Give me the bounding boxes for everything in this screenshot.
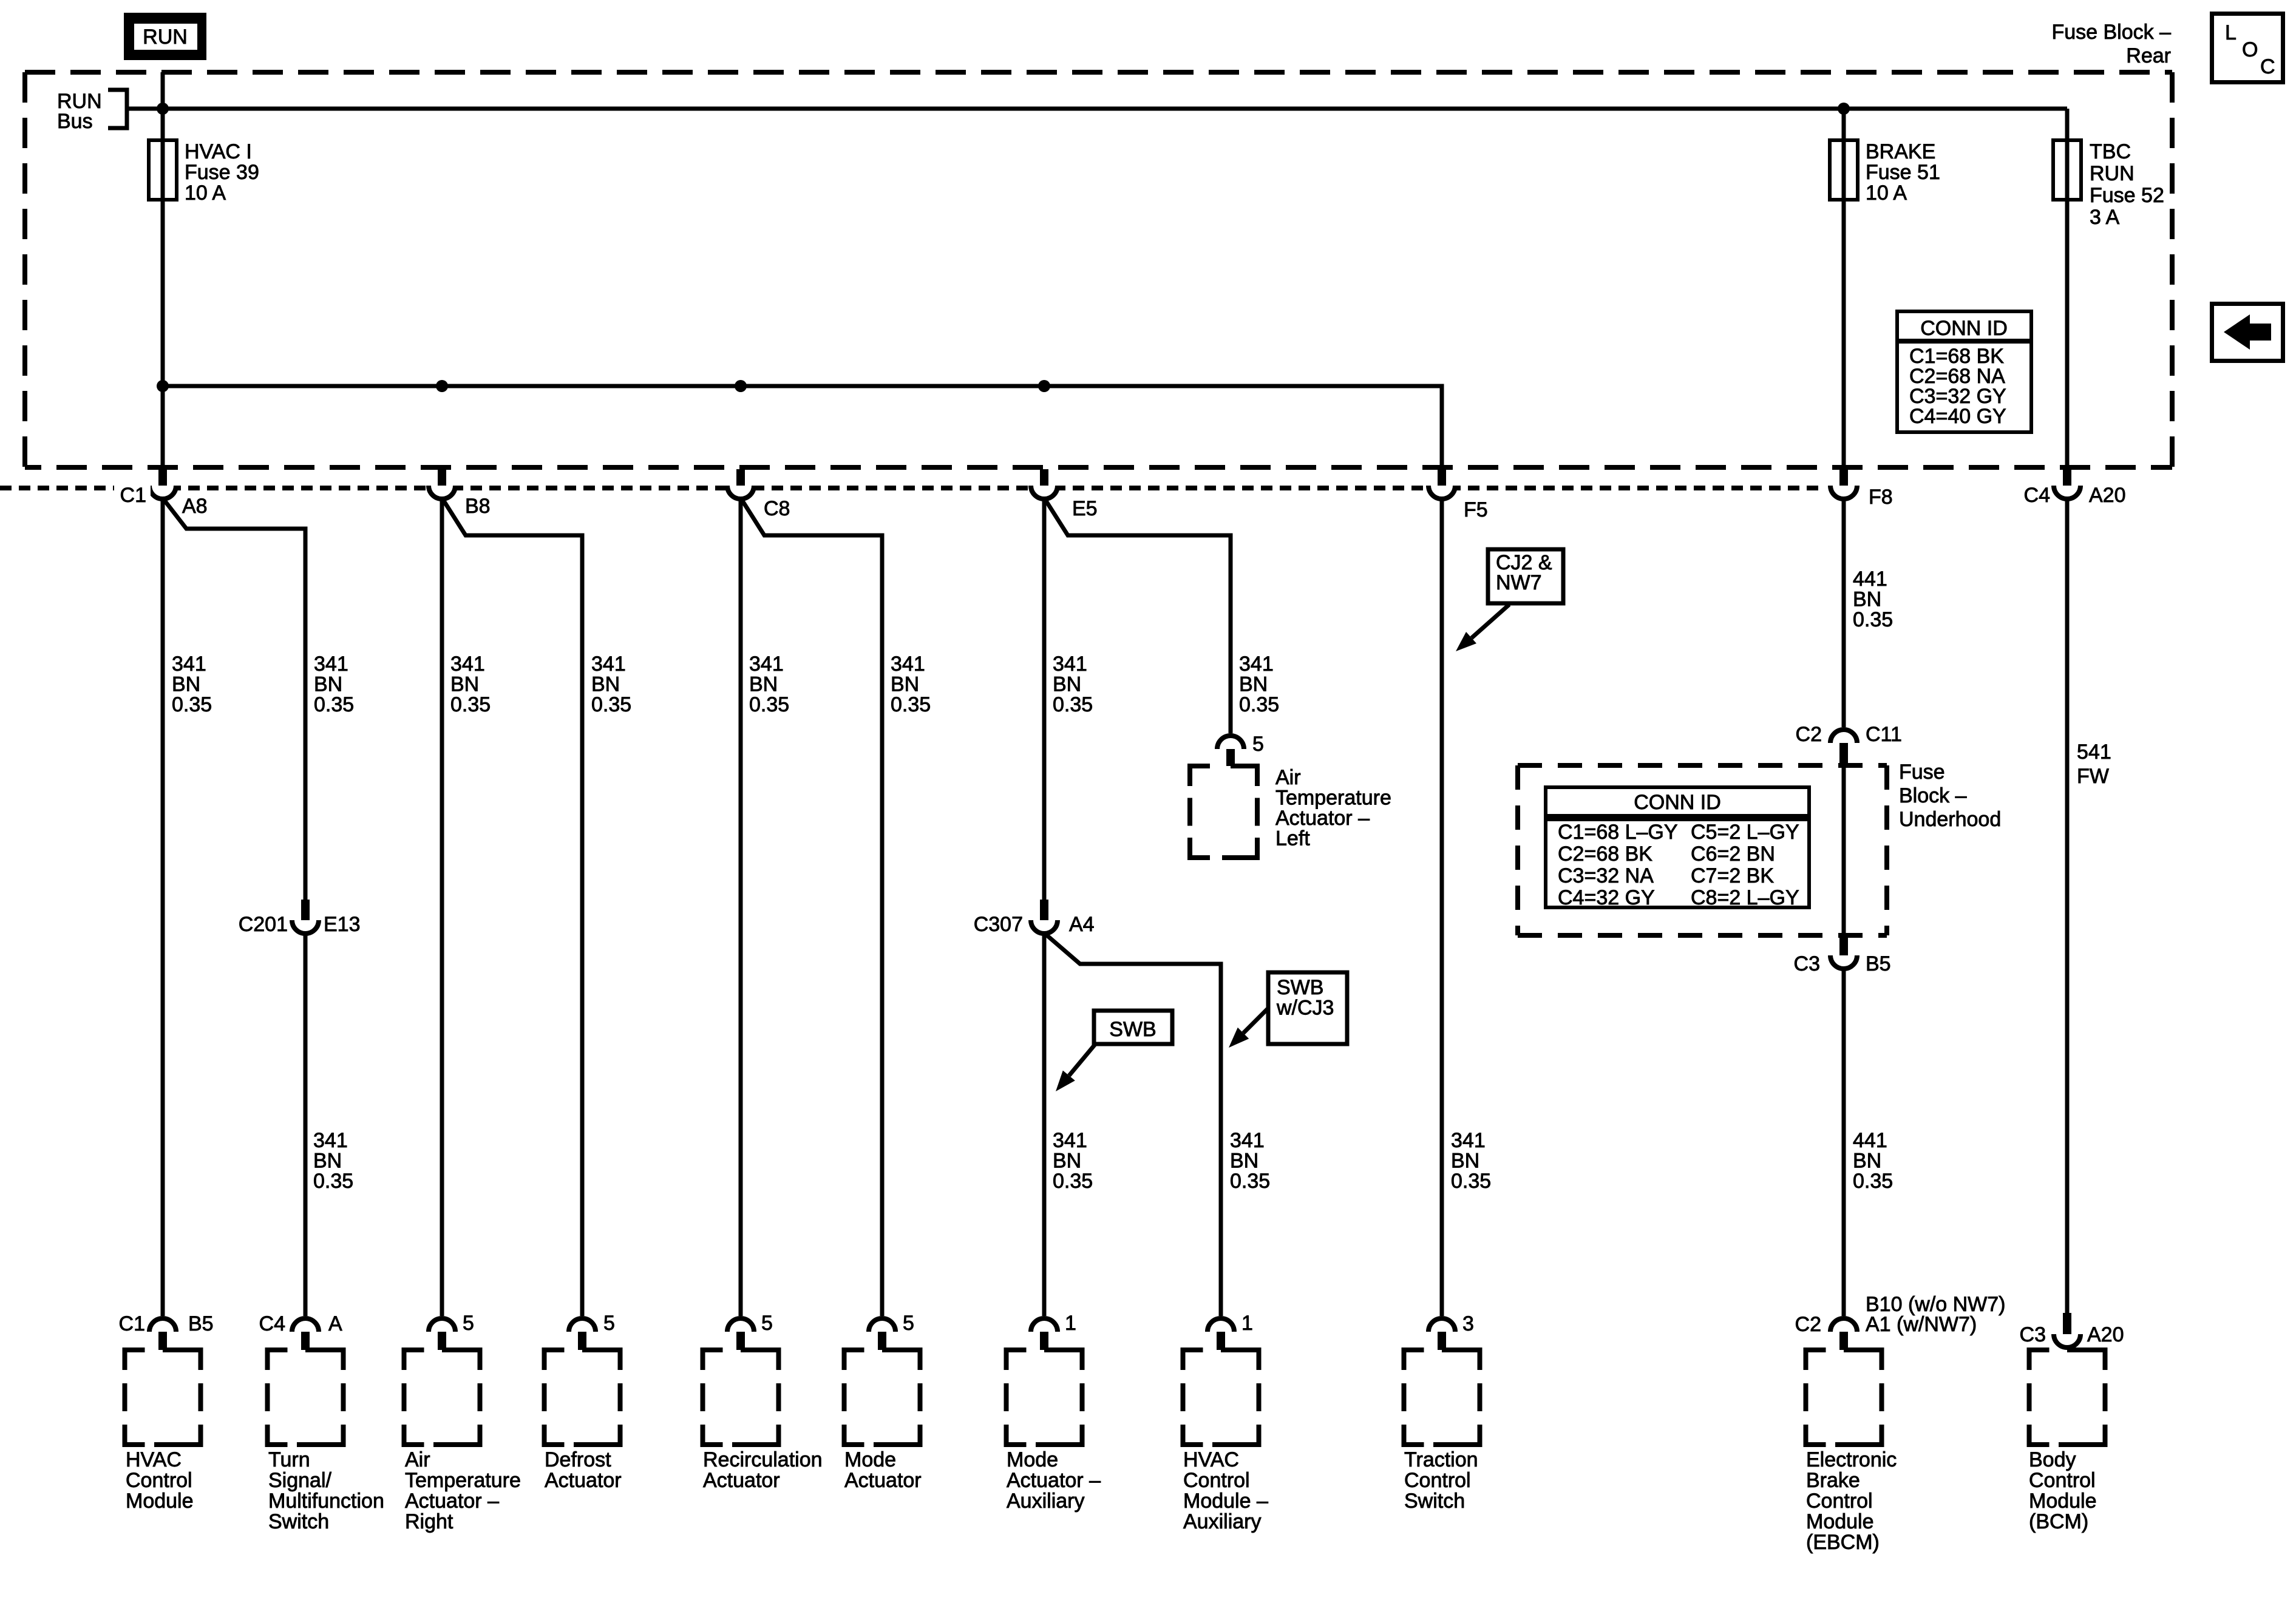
component box traction control switch [1404,1350,1480,1445]
label Electronic Brake Control Module EBCM [1806,1448,1897,1554]
label HVAC Control Module [126,1448,194,1513]
svg-text:Actuator –: Actuator – [1007,1469,1101,1492]
svg-text:341: 341 [314,653,348,676]
svg-text:HVAC: HVAC [126,1448,182,1471]
svg-text:Control: Control [2029,1469,2096,1492]
svg-text:Auxiliary: Auxiliary [1007,1490,1084,1513]
svg-text:BN: BN [1451,1150,1479,1173]
svg-text:341: 341 [1230,1129,1265,1152]
connector pin 5 mode actuator [869,1318,895,1350]
svg-text:0.35: 0.35 [172,693,212,716]
connector pin F5 [1428,469,1455,499]
svg-text:RUN: RUN [143,25,188,49]
svg-text:Module –: Module – [1183,1490,1268,1513]
svg-text:441: 441 [1853,568,1887,591]
label Fuse Block - Underhood [1899,761,2001,831]
svg-text:HVAC I: HVAC I [185,140,252,163]
connector pin B8 [429,469,455,499]
svg-text:5: 5 [463,1312,474,1335]
label Defrost Actuator [545,1448,622,1492]
svg-text:Fuse Block –: Fuse Block – [2051,21,2171,44]
svg-text:341: 341 [891,653,925,676]
svg-text:BN: BN [1239,673,1268,696]
svg-text:E5: E5 [1072,497,1098,520]
connector C4 pin A turn signal switch [292,1318,319,1350]
component box HVAC control module [125,1350,201,1445]
svg-text:B8: B8 [465,495,491,518]
svg-text:5: 5 [761,1312,773,1335]
svg-text:Fuse: Fuse [1899,761,1945,784]
label Turn Signal Multifunction Switch [268,1448,384,1533]
wire 341 BN A8 branch to C201 [163,499,305,904]
wire RUN bus [127,107,2067,111]
wire RUN feed through HVAC I fuse to connector C1 A8 [161,72,165,469]
label Air Temperature Actuator - Right [405,1448,521,1533]
component box BCM [2029,1350,2105,1445]
svg-text:BN: BN [1853,588,1881,611]
svg-text:RUN: RUN [2090,162,2135,185]
svg-text:10 A: 10 A [185,181,226,205]
connector C201 pin E13 [292,900,319,934]
wire 341 BN E5 branch to air temperature actuator left [1045,499,1231,733]
svg-text:SWB: SWB [1109,1018,1156,1041]
svg-text:Defrost: Defrost [545,1448,611,1471]
connector pin 5 air temperature actuator left [1217,736,1244,766]
connector C2 pin C11 [1830,730,1857,765]
svg-text:BRAKE: BRAKE [1866,140,1935,163]
svg-text:341: 341 [591,653,626,676]
label 341 BN 0.35 [591,653,631,716]
component box mode actuator [844,1350,920,1445]
connector row dotted boundary [0,486,1825,490]
wire 341 BN C307 to mode actuator auxiliary [1042,931,1047,1316]
svg-text:CONN ID: CONN ID [1634,791,1721,814]
svg-text:FW: FW [2077,765,2109,788]
svg-text:C307: C307 [974,913,1023,936]
svg-text:C3: C3 [2020,1323,2046,1346]
label C2 B10 A1 [1795,1293,2006,1336]
svg-text:NW7: NW7 [1496,571,1542,594]
svg-text:0.35: 0.35 [591,693,631,716]
wire 341 BN C201 to turn signal multifunction switch [304,931,308,1316]
fuse 51 BRAKE 10A [1830,140,1940,205]
junction distribution / B8 [436,380,448,392]
svg-text:Bus: Bus [57,110,93,133]
wire 541 FW C4 A20 to BCM [2065,497,2070,1313]
svg-text:BN: BN [1053,673,1081,696]
svg-text:341: 341 [313,1129,348,1152]
svg-text:Control: Control [1806,1490,1873,1513]
component box turn signal multifunction switch [268,1350,344,1445]
svg-text:341: 341 [172,653,206,676]
svg-text:Body: Body [2029,1448,2076,1471]
connector pin F8 [1830,469,1857,499]
svg-text:BN: BN [749,673,778,696]
callout SWB w/CJ3 [1229,972,1347,1048]
label Recirculation Actuator [703,1448,823,1492]
component box mode actuator auxiliary [1007,1350,1082,1445]
LOC legend box [2212,14,2283,83]
svg-text:C1: C1 [119,1312,145,1335]
svg-text:O: O [2242,38,2258,61]
svg-text:Control: Control [1404,1469,1471,1492]
svg-text:C3=32 NA: C3=32 NA [1558,864,1654,887]
svg-text:C8: C8 [764,497,790,520]
svg-text:Right: Right [405,1510,453,1533]
wire 341 BN E5 to C307 [1042,497,1047,904]
label C3 A20 [2020,1323,2124,1346]
label 341 BN 0.35 [450,653,491,716]
svg-text:BN: BN [891,673,919,696]
svg-text:C6=2 BN: C6=2 BN [1691,842,1775,866]
svg-text:341: 341 [1451,1129,1486,1152]
svg-text:Mode: Mode [844,1448,896,1471]
svg-text:Temperature: Temperature [1275,787,1391,810]
svg-text:341: 341 [749,653,784,676]
svg-text:Switch: Switch [268,1510,329,1533]
svg-text:Module: Module [126,1490,194,1513]
svg-text:Actuator –: Actuator – [405,1490,499,1513]
svg-text:A1 (w/NW7): A1 (w/NW7) [1866,1313,1977,1336]
svg-text:Temperature: Temperature [405,1469,521,1492]
label 341 BN 0.35 [749,653,789,716]
wire through TBC RUN fuse to C4 A20 [2065,109,2070,469]
svg-text:A4: A4 [1069,913,1095,936]
svg-text:A20: A20 [2087,1323,2124,1346]
label C307 A4 [974,913,1095,936]
svg-text:0.35: 0.35 [1053,693,1093,716]
svg-text:Left: Left [1275,827,1310,850]
svg-text:B5: B5 [188,1312,214,1335]
svg-text:0.35: 0.35 [1853,1170,1893,1193]
connector C3 pin A20 BCM [2054,1313,2080,1347]
junction distribution / E5 [1038,380,1050,392]
svg-text:Actuator: Actuator [844,1469,922,1492]
svg-text:Mode: Mode [1007,1448,1058,1471]
label C1 [114,483,151,507]
connector pin 1 mode actuator auxiliary [1031,1318,1058,1350]
label Fuse Block - Rear [2051,21,2171,67]
wire 341 BN B8 branch to defrost actuator [443,499,582,1316]
arrow legend box [2212,304,2283,361]
svg-text:Control: Control [1183,1469,1250,1492]
svg-text:C5=2 L–GY: C5=2 L–GY [1691,821,1799,844]
junction distribution / C1 [157,380,169,392]
connector C4 pin A20 [2054,469,2080,499]
svg-text:Electronic: Electronic [1806,1448,1897,1471]
label C1 B5 [119,1312,214,1335]
connector C307 pin A4 [1031,900,1058,934]
label 341 BN 0.35 [1230,1129,1270,1193]
label C2 C11 [1796,723,1902,746]
svg-text:341: 341 [1053,653,1087,676]
CONN ID table fuse block rear [1897,311,2031,432]
svg-text:L: L [2225,21,2237,44]
wire 441 BN F8 to underhood fuse block [1842,497,1846,727]
svg-text:0.35: 0.35 [1239,693,1279,716]
svg-text:BN: BN [313,1150,342,1173]
wire 341 BN C1 to HVAC control module [161,497,165,1316]
wire 341 BN F5 to traction control switch [1440,497,1444,1316]
svg-text:10 A: 10 A [1866,181,1907,205]
label Mode Actuator [844,1448,922,1492]
callout SWB [1056,1011,1172,1091]
label C201 E13 [239,913,361,936]
svg-text:A: A [328,1312,342,1335]
label 541 FW [2077,741,2111,788]
svg-text:Underhood: Underhood [1899,808,2001,831]
svg-text:1: 1 [1065,1312,1076,1335]
svg-text:TBC: TBC [2090,140,2131,163]
label 441 BN 0.35 [1853,568,1893,631]
svg-text:Air: Air [1275,766,1301,789]
svg-text:BN: BN [1853,1150,1881,1173]
svg-text:Fuse 39: Fuse 39 [185,161,259,184]
svg-text:341: 341 [1239,653,1274,676]
wire 341 BN C307 branch to HVAC control module auxiliary [1045,934,1221,1316]
svg-text:Traction: Traction [1404,1448,1478,1471]
svg-text:Block –: Block – [1899,784,1967,807]
svg-text:C2=68 BK: C2=68 BK [1558,842,1652,866]
component box HVAC control module auxiliary [1183,1350,1259,1445]
component box recirculation actuator [703,1350,779,1445]
svg-text:Fuse 52: Fuse 52 [2090,184,2164,207]
svg-text:C4: C4 [259,1312,285,1335]
svg-text:0.35: 0.35 [313,1170,353,1193]
connector pin C8 [727,469,754,499]
svg-text:0.35: 0.35 [1853,608,1893,631]
svg-text:Switch: Switch [1404,1490,1465,1513]
svg-text:w/CJ3: w/CJ3 [1276,997,1334,1020]
svg-text:F5: F5 [1464,498,1488,521]
component box EBCM [1806,1350,1882,1445]
svg-text:Recirculation: Recirculation [703,1448,823,1471]
label 341 BN 0.35 [1053,1129,1093,1193]
svg-text:Fuse 51: Fuse 51 [1866,161,1940,184]
svg-text:1: 1 [1241,1312,1253,1335]
svg-text:0.35: 0.35 [891,693,931,716]
CONN ID table underhood [1546,787,1809,909]
svg-text:C4=32 GY: C4=32 GY [1558,886,1655,909]
svg-text:C3: C3 [1794,952,1820,975]
label Body Control Module BCM [2029,1448,2097,1533]
svg-text:Auxiliary: Auxiliary [1183,1510,1261,1533]
component box air temperature actuator left [1190,766,1259,858]
connector pin 5 defrost actuator [569,1318,596,1350]
label C4 A [259,1312,342,1335]
svg-text:BN: BN [450,673,479,696]
svg-text:BN: BN [314,673,342,696]
wire 441 BN underhood to EBCM [1842,966,1846,1316]
connector pin 5 air temperature actuator right [429,1318,455,1350]
svg-text:341: 341 [450,653,485,676]
svg-text:B5: B5 [1866,952,1891,975]
connector C1 pin B5 HVAC control module [149,1318,176,1350]
svg-text:0.35: 0.35 [1053,1170,1093,1193]
label HVAC Control Module - Auxiliary [1183,1448,1268,1533]
connector C2 pin B10/A1 EBCM [1830,1318,1857,1350]
svg-text:(EBCM): (EBCM) [1806,1531,1880,1554]
wire BRAKE fuse to F8 [1842,109,1846,469]
svg-text:Turn: Turn [268,1448,310,1471]
svg-text:C: C [2260,55,2275,78]
svg-text:HVAC: HVAC [1183,1448,1239,1471]
svg-text:3: 3 [1462,1312,1474,1335]
junction RUN bus / HVAC I fuse [157,103,169,115]
connector pin 1 HVAC control module auxiliary [1207,1318,1234,1350]
svg-text:Air: Air [405,1448,430,1471]
svg-text:5: 5 [903,1312,914,1335]
fuse block underhood dashed outline [1518,765,1887,935]
svg-text:Module: Module [1806,1510,1874,1533]
svg-text:C4: C4 [2024,484,2050,507]
wire distribution bus to F5 [163,386,1442,469]
svg-text:BN: BN [172,673,200,696]
svg-text:3 A: 3 A [2090,206,2119,229]
svg-text:C1=68 L–GY: C1=68 L–GY [1558,821,1678,844]
svg-text:C4=40 GY: C4=40 GY [1909,405,2006,428]
label Traction Control Switch [1404,1448,1478,1513]
svg-text:Rear: Rear [2126,44,2171,67]
svg-text:CONN ID: CONN ID [1920,317,2008,340]
svg-text:0.35: 0.35 [314,693,354,716]
RUN Bus tap bracket [57,88,127,134]
connector C3 pin B5 underhood [1830,937,1857,969]
svg-text:0.35: 0.35 [450,693,491,716]
connector C1 pin A8 [149,469,176,499]
svg-text:Control: Control [126,1469,192,1492]
svg-text:SWB: SWB [1277,976,1323,999]
label 341 BN 0.35 [891,653,931,716]
svg-text:Brake: Brake [1806,1469,1860,1492]
label 341 BN 0.35 [1053,653,1093,716]
junction RUN bus / BRAKE fuse [1838,103,1850,115]
connector pin 5 recirculation actuator [727,1318,754,1350]
svg-text:5: 5 [603,1312,615,1335]
label 341 BN 0.35 [313,1129,353,1193]
connector pin E5 [1031,469,1058,499]
svg-text:341: 341 [1053,1129,1087,1152]
fuse 39 HVAC I 10A [149,140,259,205]
svg-text:0.35: 0.35 [1230,1170,1270,1193]
svg-text:0.35: 0.35 [1451,1170,1491,1193]
callout CJ2 and NW7 [1456,549,1563,651]
svg-text:5: 5 [1252,733,1264,756]
component box defrost actuator [545,1350,620,1445]
svg-text:C201: C201 [239,913,288,936]
svg-text:C2: C2 [1795,1313,1821,1336]
wire 341 BN C8 branch to mode actuator [741,499,882,1316]
svg-text:BN: BN [591,673,620,696]
fuse 52 TBC RUN 3A [2053,140,2164,229]
fuse block rear dashed outline [25,72,2172,467]
label 341 BN 0.35 [1239,653,1279,716]
svg-text:F8: F8 [1869,486,1893,509]
wire inside underhood fuse block [1842,765,1846,937]
svg-text:Actuator –: Actuator – [1275,807,1370,830]
svg-text:0.35: 0.35 [749,693,789,716]
svg-text:C7=2 BK: C7=2 BK [1691,864,1774,887]
svg-text:E13: E13 [324,913,361,936]
svg-text:Actuator: Actuator [545,1469,622,1492]
svg-text:Module: Module [2029,1490,2097,1513]
label Mode Actuator - Auxiliary [1007,1448,1101,1513]
label 341 BN 0.35 [314,653,354,716]
svg-text:C2: C2 [1796,723,1822,746]
power source box RUN [128,17,202,56]
wire 341 BN C8 to recirculation actuator [739,497,743,1316]
svg-text:441: 441 [1853,1129,1887,1152]
svg-text:A8: A8 [182,495,208,518]
svg-text:Signal/: Signal/ [268,1469,332,1492]
label C3 B5 [1794,952,1891,975]
label 341 BN 0.35 [172,653,212,716]
svg-text:C11: C11 [1866,723,1902,746]
svg-text:C8=2 L–GY: C8=2 L–GY [1691,886,1799,909]
wire 341 BN B8 to air temperature actuator right [440,497,444,1316]
svg-text:Actuator: Actuator [703,1469,780,1492]
junction distribution / C8 [735,380,747,392]
connector pin 3 traction control switch [1428,1318,1455,1350]
svg-text:C1: C1 [120,484,146,507]
label Air Temperature Actuator - Left [1275,766,1391,850]
svg-text:Multifunction: Multifunction [268,1490,384,1513]
svg-text:(BCM): (BCM) [2029,1510,2088,1533]
label 441 BN 0.35 [1853,1129,1893,1193]
svg-text:BN: BN [1230,1150,1258,1173]
svg-text:541: 541 [2077,741,2111,764]
label 341 BN 0.35 [1451,1129,1491,1193]
svg-text:BN: BN [1053,1150,1081,1173]
svg-text:A20: A20 [2089,484,2126,507]
component box air temperature actuator right [404,1350,480,1445]
